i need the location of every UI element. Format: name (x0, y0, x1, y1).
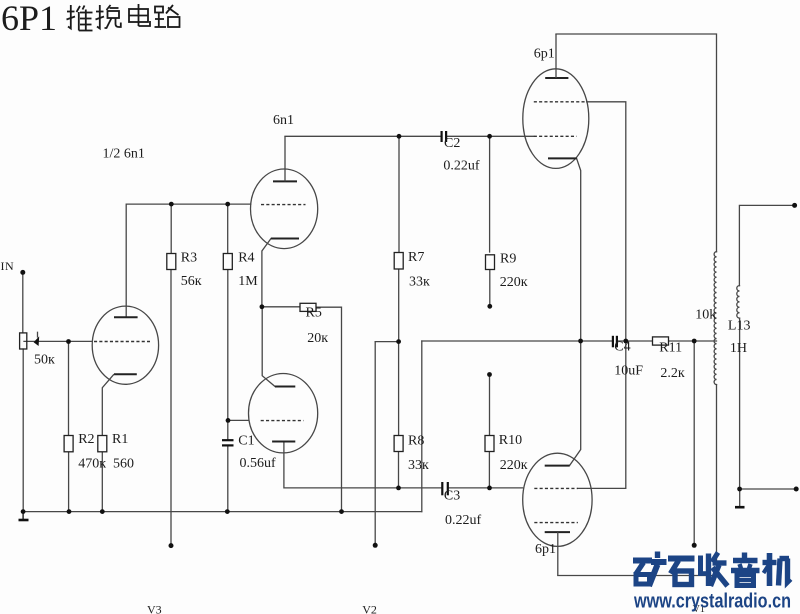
svg-text:33к: 33к (408, 458, 429, 473)
watermark char 收 (701, 553, 728, 587)
wire V5 plate to C2 (285, 135, 441, 137)
wire C1 to ground (227, 446, 229, 512)
svg-text:L13: L13 (728, 319, 751, 334)
terminal output low (794, 487, 799, 492)
capacitor C2 0.22uf plates (442, 131, 447, 142)
svg-text:560: 560 (113, 457, 134, 472)
wire R2 to ground (68, 452, 70, 512)
svg-text:R10: R10 (499, 433, 522, 448)
resistor R2 470k (64, 436, 73, 452)
node R10 cathode bus (487, 486, 492, 491)
svg-text:R5: R5 (306, 306, 322, 321)
wire IN to potentiometer (22, 272, 24, 333)
node C1 ground (225, 509, 230, 514)
transformer secondary winding L13 (737, 286, 740, 319)
svg-text:1/2 6n1: 1/2 6n1 (103, 147, 145, 162)
svg-text:C2: C2 (444, 136, 460, 151)
svg-text:470к: 470к (78, 457, 106, 472)
wire R5 right to ground (316, 307, 342, 511)
terminal R3 B+ (169, 543, 174, 548)
tube V3 plate (114, 316, 138, 318)
node R10 top stub (487, 372, 492, 377)
svg-text:6p1: 6p1 (534, 47, 555, 62)
node IN terminal (20, 270, 25, 275)
node V5 cathode / R5 (260, 304, 265, 309)
ground symbol (input) (22, 512, 24, 520)
tube V4 screen grid g2 (dashed) (534, 101, 587, 103)
terminal output high (792, 203, 797, 208)
svg-text:C4: C4 (614, 340, 630, 355)
svg-text:6P1: 6P1 (1, 0, 57, 38)
resistor R1 560 (98, 436, 107, 452)
wire C3 to V1 grid (449, 487, 523, 489)
tube V2 plate (275, 386, 295, 388)
tube V5 cathode (271, 238, 299, 240)
wire V2 grid (228, 419, 249, 421)
svg-text:6n1: 6n1 (273, 113, 294, 128)
resistor R5 20k (horizontal) (300, 303, 316, 311)
node R8 cathode bus (396, 486, 401, 491)
resistor R9 220k (486, 255, 495, 270)
node R1 ground (100, 509, 105, 514)
wire secondary ground stub (739, 489, 741, 506)
wire R9 bottom stub (489, 270, 491, 306)
watermark char 矿 (633, 552, 667, 587)
node C1 grid V2 (226, 418, 231, 423)
svg-text:220к: 220к (500, 275, 528, 290)
wire ground bus (23, 511, 422, 513)
terminal screen B+ (692, 543, 697, 548)
svg-text:10uF: 10uF (614, 364, 643, 379)
wire R7 bottom to node B (398, 269, 400, 342)
wire node to R9 (489, 136, 491, 252)
svg-text:6p1: 6p1 (535, 542, 556, 557)
svg-text:R9: R9 (500, 252, 516, 267)
wire R11 to primary center tap (669, 340, 717, 342)
wire node to R7 (398, 136, 400, 252)
wire B+ top from V4 plate to transformer (556, 34, 717, 252)
svg-text:V3: V3 (147, 603, 162, 614)
ground symbol (secondary) (735, 506, 745, 509)
wire primary bottom to V1 plate (558, 385, 717, 576)
tube V1 plate (bottom bar) (545, 531, 570, 533)
tube V3 grid (dashed) (94, 341, 150, 343)
wire V5 plate lead (284, 136, 286, 181)
wire R4 top (227, 204, 229, 253)
tube V4 cathode (548, 157, 577, 159)
svg-text:R11: R11 (659, 341, 682, 356)
node ground at input (21, 509, 26, 514)
capacitor C3 0.22uf plates (442, 482, 448, 495)
tube V3 cathode (114, 373, 137, 375)
tube V1 6p1 envelope (bottom) (523, 453, 592, 546)
title char 电 (129, 4, 150, 26)
svg-text:R7: R7 (408, 250, 424, 265)
wire node to R5 (262, 306, 300, 308)
wire R3 bottom to terminal (170, 270, 172, 546)
svg-text:C3: C3 (444, 489, 460, 504)
svg-text:10k: 10k (695, 308, 716, 323)
svg-text:V2: V2 (362, 603, 377, 614)
svg-text:R4: R4 (238, 251, 254, 266)
wire y341 corner down to ground bus (421, 341, 423, 512)
node R2 ground (67, 509, 72, 514)
tube V2 1/2 6n1 envelope (bottom) (249, 374, 318, 453)
capacitor C1 0.56uf plates (222, 440, 234, 445)
svg-text:20к: 20к (307, 331, 328, 346)
wire secondary bottom to output low (740, 318, 797, 489)
resistor R10 220k (485, 436, 494, 452)
wire R8 bottom to V1 cathode bus (398, 452, 400, 488)
wire V3 cathode to R1 (102, 374, 114, 435)
wire screen grid bus (578, 102, 626, 489)
tube V1 control grid g1 (dashed) (534, 487, 578, 489)
title char 推 (67, 5, 93, 31)
tube V5 1/2 6n1 envelope (top) (251, 169, 318, 249)
tube V1 cathode (top bar) (545, 465, 570, 467)
wire C2 to V4 grid g1 (447, 135, 534, 137)
svg-text:56к: 56к (181, 274, 202, 289)
title 6P1 (1, 0, 57, 38)
node R4 top (225, 202, 230, 207)
wire V5 cathode to node R5 (262, 239, 271, 307)
watermark char 机 (763, 553, 791, 586)
tube V4 control grid g1 (dashed) (534, 135, 577, 137)
wire V3 grid (24, 340, 92, 342)
node R5 ground (339, 509, 344, 514)
node V4 cathode y341 (578, 339, 583, 344)
wire node B left jog (375, 341, 398, 343)
resistor R3 56k (167, 254, 176, 270)
node R11 right (692, 339, 697, 344)
transformer primary winding 10k (714, 252, 716, 385)
svg-text:1M: 1M (238, 274, 258, 289)
title char 挽 (96, 5, 121, 29)
node screen bus y341 (623, 339, 628, 344)
watermark char 石 (668, 559, 695, 585)
wire pot node to R2 (68, 342, 70, 436)
node R7 top (397, 134, 402, 139)
svg-text:R1: R1 (112, 432, 128, 447)
wire R3 top (170, 204, 172, 253)
tube V4 6p1 envelope (top) (523, 69, 589, 169)
wire R4 bottom to C1 node (227, 270, 229, 441)
wire V4 cathode drop (570, 158, 581, 465)
svg-text:0.22uf: 0.22uf (445, 513, 482, 528)
svg-text:2.2к: 2.2к (660, 366, 685, 381)
tube V2 cathode (272, 441, 295, 443)
svg-text:R8: R8 (408, 434, 424, 449)
wire node B to R8 (398, 342, 400, 436)
svg-text:1H: 1H (730, 341, 747, 356)
svg-text:IN: IN (1, 259, 15, 273)
wire screen node to terminal (693, 341, 695, 545)
wire V2 plate lead (262, 307, 275, 387)
resistor R11 2.2k (horizontal) (653, 337, 669, 345)
wire V2 cathode bus to C3 (284, 442, 441, 488)
wire secondary top to output (739, 205, 794, 285)
potentiometer 50k body (20, 333, 27, 349)
svg-text:220к: 220к (500, 458, 528, 473)
node pot wiper / R2 (66, 339, 71, 344)
tube V1 screen grid g2 (dashed) (534, 522, 578, 524)
wire pot wiper tick (37, 332, 39, 337)
svg-text:0.56uf: 0.56uf (240, 456, 277, 471)
tube V5 plate (273, 180, 297, 182)
wire C4 to R11 (618, 340, 653, 342)
node R9 top (487, 134, 492, 139)
node B R7 R8 (396, 339, 401, 344)
title char 路 (155, 5, 180, 27)
svg-text:www.crystalradio.cn: www.crystalradio.cn (633, 591, 791, 613)
node secondary bottom (737, 487, 742, 492)
wire V2 supply drop (374, 342, 376, 546)
wire R10 top stub (489, 375, 491, 436)
wire V3 plate to V5 grid (126, 204, 251, 317)
potentiometer wiper arrow (34, 336, 40, 346)
wire potentiometer to ground (22, 349, 24, 512)
resistor R4 1M (223, 254, 232, 270)
wire V1 plate lead (557, 532, 559, 575)
capacitor C4 10uF plates (613, 336, 617, 348)
wire V4 plate lead (555, 34, 557, 78)
tube V4 plate (545, 77, 568, 79)
node R9 bottom stub (487, 304, 492, 309)
wire R1 to ground (101, 452, 103, 512)
node R3 top (169, 202, 174, 207)
watermark char 音 (731, 553, 760, 586)
tube V2 grid (dashed) (261, 420, 304, 422)
tube V5 grid (dashed) (261, 204, 306, 206)
svg-text:50к: 50к (34, 353, 55, 368)
svg-text:R3: R3 (181, 251, 197, 266)
svg-text:C1: C1 (238, 434, 254, 449)
svg-text:0.22uf: 0.22uf (443, 159, 480, 174)
svg-text:33к: 33к (409, 275, 430, 290)
tube V3 1/2 6n1 envelope (92, 306, 158, 384)
wire R10 bottom (488, 452, 490, 488)
resistor R8 33k (394, 436, 403, 452)
svg-text:R2: R2 (78, 432, 94, 447)
watermark url www.crystalradio.cn (633, 591, 791, 613)
resistor R7 33k (394, 253, 403, 270)
wire cathode bus y341 left segment (422, 340, 612, 342)
terminal V2 B+ (373, 543, 378, 548)
